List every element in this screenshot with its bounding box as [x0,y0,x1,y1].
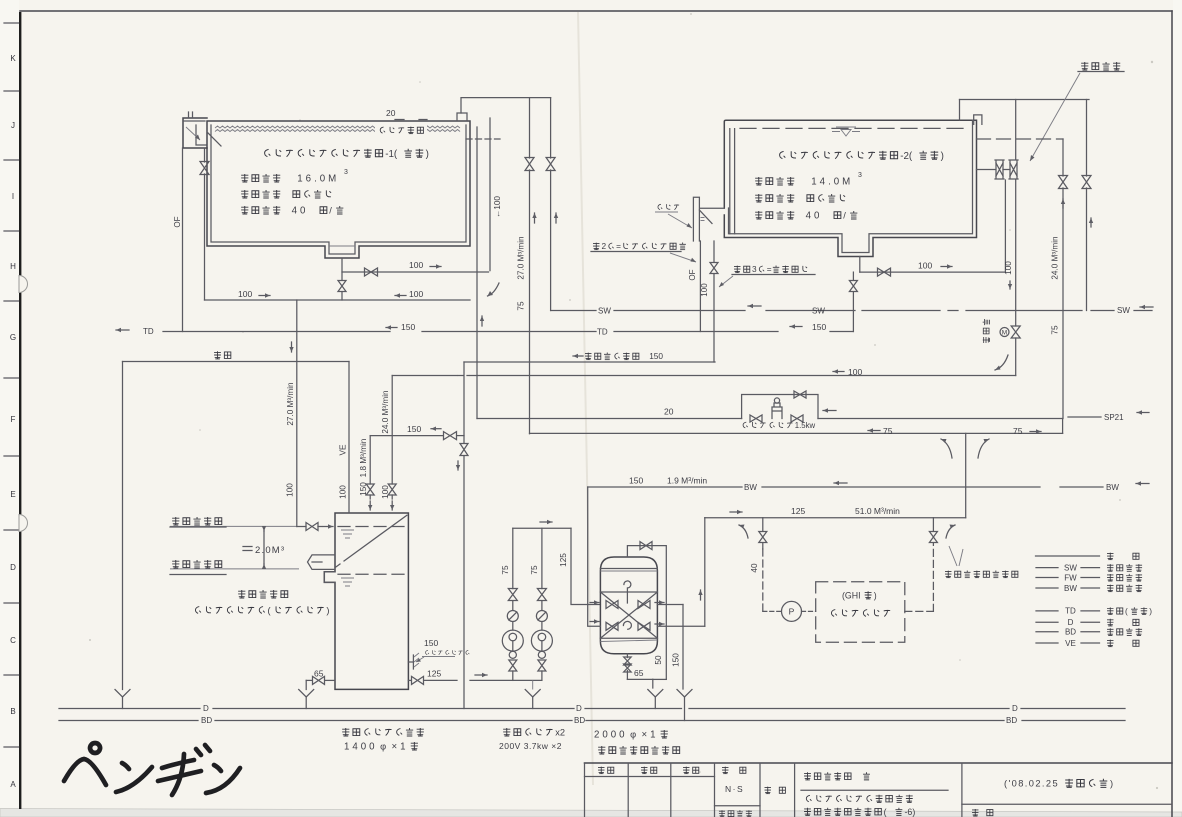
riser filter to 51 line [704,518,706,627]
BW backwash line [588,486,742,488]
svg-text:B: B [10,707,15,716]
svg-text:/: / [843,211,846,221]
svg-text:/: / [329,206,332,216]
svg-text:D: D [203,704,209,713]
ozone carrier drop with valve [762,518,764,531]
svg-text:VE: VE [339,444,348,455]
svg-text:2000: 2000 [594,730,628,741]
filter upper-right stub to 150 drain [657,604,683,606]
flow arrow at BW right [1136,483,1149,485]
riser 24m3 from T2 dashed return [1062,139,1064,176]
flow arrow left at TD left end [116,329,129,331]
balance tank lower water dashes [338,573,405,575]
balance tank drain 65 with valve [325,679,335,681]
curved arrow right of drop [978,439,989,458]
svg-text:): ) [874,590,877,600]
blind flange nozzle on tank right wall [408,655,413,669]
svg-text:M: M [1002,330,1007,337]
svg-text:150: 150 [359,482,368,496]
svg-text:K: K [10,54,16,63]
svg-text:1.5kw: 1.5kw [795,421,816,430]
drop from header into T2 rim [959,100,961,121]
pipe T2 OF drop to TD [699,241,701,332]
tank T1 temperature label [241,190,331,198]
pipe T1 sump vertical with valve [341,258,343,280]
svg-text:P: P [789,607,795,617]
float valve pipe from header [1015,100,1017,160]
curved arrow left of drop [941,439,952,458]
arrow from overflow label [670,253,696,262]
svg-text:14.0M: 14.0M [811,177,853,188]
svg-text:40: 40 [292,206,309,217]
svg-text:150: 150 [424,638,438,648]
title block verticals [584,763,586,817]
filter lower-right outlet arrow [655,623,664,625]
balance tank body [324,513,408,689]
svg-text:C: C [10,636,16,645]
right margin lighter strip [1173,0,1182,817]
svg-text:H: H [10,262,16,271]
label scale [722,767,746,774]
pump P1 suction joint and valve [509,651,516,658]
label drawing number [972,809,993,816]
svg-text:27.0 M³/min: 27.0 M³/min [517,236,526,280]
svg-text:3: 3 [752,264,757,274]
vent line from balance tank [123,361,350,363]
flow arrow left on 150 line [790,326,802,328]
pipe float valve down to motor valve [1015,180,1017,326]
svg-text:VE: VE [1065,639,1076,648]
svg-text:BD: BD [574,716,585,725]
svg-text:TD: TD [1065,607,1076,616]
dashed distribution stub inside T1 [466,138,500,140]
caption balance tank [342,728,424,736]
svg-text:BD: BD [1006,716,1017,725]
flow arrow left on SW [748,305,761,307]
svg-text:-1(: -1( [385,149,398,160]
dashed riser to 51 line with valve [932,543,934,611]
65 drain line to Y1 [627,678,652,680]
legend row BW [1036,587,1058,589]
svg-text:100: 100 [848,367,862,377]
label penguin pool new plan [806,795,912,803]
svg-text:100: 100 [381,485,390,499]
pipe T2 sump drain vertical [859,257,861,273]
pipe wall to float valve [977,169,996,171]
flow arrow left on BW [834,482,847,484]
svg-text:TD: TD [143,327,154,336]
tank T1 volume label [241,174,339,185]
svg-text:D: D [10,563,16,572]
scale cell line [715,805,761,807]
svg-text:3: 3 [344,169,348,176]
tank T2 circulation label [755,211,857,222]
left margin lighter strip [0,0,19,808]
suction Y drain [525,690,540,698]
svg-text:D: D [1068,618,1074,627]
svg-text:2.0M³: 2.0M³ [255,545,285,556]
svg-text:100: 100 [286,483,295,497]
pump P2 riser with valves [541,528,543,588]
BW drop into filter lower-left [588,487,601,626]
discharge riser 125 to filter [571,528,600,604]
svg-text:): ) [941,151,944,162]
label GHI building [842,590,877,600]
svg-text:100: 100 [409,289,423,299]
svg-text:OF: OF [173,216,182,227]
valve on circ drop [460,444,468,456]
svg-text:×1: ×1 [642,730,659,741]
valve on 27m3 riser [525,158,534,171]
svg-text:SP21: SP21 [1104,413,1124,422]
label approval [598,767,614,774]
150 backwash drain drop [682,605,684,690]
svg-text:150: 150 [672,653,681,667]
valve on T1 sump vertical [338,281,346,292]
svg-text:150: 150 [401,322,415,332]
svg-text:SW: SW [598,307,611,316]
svg-text:2: 2 [602,241,607,251]
svg-text:27.0 M³/min: 27.0 M³/min [286,382,295,426]
pipe T1 sump drain horizontal 100 [342,271,489,273]
valve on T1 overflow drop [200,162,209,175]
svg-text:OF: OF [688,269,697,280]
svg-text:150: 150 [407,424,421,434]
svg-text:75: 75 [530,565,539,575]
filter X cross piping [600,592,657,638]
svg-text:×1: ×1 [392,742,409,753]
label Toba aquarium [804,772,870,780]
filter upper panel line [600,591,657,593]
svg-text:100: 100 [238,289,252,299]
flow arrow down on circ drop [457,461,459,470]
svg-text:75: 75 [517,301,526,311]
svg-text:100: 100 [1004,261,1013,275]
riser SW supply right with valve [1086,100,1088,177]
valve on 150 stub [444,432,457,440]
balance tank lower water symbol [341,578,354,586]
flow arrow up on 24m3 riser [1062,199,1064,208]
svg-text:100: 100 [700,283,709,297]
drawing frame right border [1171,11,1173,817]
svg-text:SW: SW [1064,563,1077,572]
svg-text:24.0 M³/min: 24.0 M³/min [381,390,390,434]
svg-text:75: 75 [1051,325,1060,335]
tank T2 name label [780,151,944,162]
svg-text:-6): -6) [905,807,916,817]
balance tank upper water symbol [341,530,354,538]
fold crease shading [578,12,593,785]
svg-text:FW: FW [1064,573,1077,582]
svg-text:(: ( [884,807,887,817]
tank T2 water level dashed line [740,127,965,129]
svg-text:75: 75 [883,426,893,436]
svg-text:BD: BD [1065,628,1076,637]
label back-100 under T1 right [395,295,406,297]
svg-text:): ) [326,606,329,616]
date cell line [962,803,1172,805]
line pump symbol [772,403,782,419]
tank T1 inner wall [211,125,466,254]
line pump bypass loop [742,395,818,419]
svg-text:125: 125 [791,506,805,516]
balance tank drain corner and Y [305,680,307,689]
flow arrow up on 27m3 riser [534,213,536,223]
label run-level underlined [172,560,222,568]
label water treatment diagram [804,807,915,817]
T2 rim stub box [974,115,982,125]
pump P2 suction joint and valve [538,651,545,658]
SW main line [551,310,596,312]
svg-text:75: 75 [1013,426,1023,436]
label motor-valve rotated [983,319,990,343]
dashed return from ozonizer [905,610,934,612]
balance tank outlet 125 to pumps [408,679,411,681]
legend text circulation [1107,553,1139,560]
svg-text:1.9 M³/min: 1.9 M³/min [667,476,707,486]
SP21 long line [477,418,742,420]
caption filter size [594,730,668,741]
title underline 1 [801,789,948,791]
tank T2 temperature label [755,194,845,202]
legend row BD [1036,631,1058,633]
filter lower-left inlet arrow [590,621,599,623]
svg-text:BW: BW [1106,483,1119,492]
pump P2 body [531,630,552,651]
svg-text:D: D [1012,704,1018,713]
D drain main line [59,708,200,710]
filter Y1 drain to D [648,690,663,698]
flow arrow up on return riser [481,316,483,326]
valve on T2 sump drop [849,281,857,292]
svg-text:3: 3 [858,172,862,179]
dimension ticks on tank T1 rim [395,119,404,121]
title block top line [585,762,1173,764]
filter lower vent circle [623,621,631,629]
flow arrow up on right SW riser [1090,218,1092,227]
svg-text:SW: SW [1117,306,1130,315]
svg-text:BW: BW [1064,584,1077,593]
svg-text:F: F [11,415,16,424]
valve on bypass top [794,391,806,398]
tank T1 name label [265,149,429,160]
stop water level line [170,525,297,527]
label sludge outlet [238,590,288,598]
svg-text:(GHI: (GHI [842,590,861,600]
flow arrow down label on float pipe [1009,281,1011,289]
flow arrow up on 51 riser [700,590,702,600]
injector pump P circle [782,601,802,621]
dashed return line T2 to riser [977,138,1064,140]
150 backwash-drain stub line [370,435,443,437]
filter face valves lower row [606,622,618,630]
svg-text:150: 150 [649,351,663,361]
legend line circulation [1036,555,1100,557]
label back-100 on line [833,371,844,373]
balance tank upper water dashes [338,526,405,528]
svg-text:40: 40 [750,563,759,573]
pipe T1 rim riser to SW header [461,98,551,113]
legend row TD [1036,610,1058,612]
pump discharge header [513,527,571,529]
svg-text:('08.02.25: ('08.02.25 [1004,779,1059,789]
valve on SW riser [546,158,555,171]
label water-level-adjust with underline [1081,62,1120,70]
label stop-level underlined [172,517,222,525]
inlet VE pipe into tank top [348,362,350,514]
water level adjust float valve pair [995,160,1004,179]
tank T2 overflow weir diagonal [699,210,712,224]
svg-text:50: 50 [654,655,663,665]
arrow from blind flange label [416,657,424,662]
arrow from circ-return label [719,276,733,287]
vent Y drain to D line [115,690,130,698]
title header underline [585,776,715,778]
valve on 24m3 riser [1059,176,1068,189]
svg-text:BD: BD [201,716,212,725]
pointer lines from existing label [949,546,963,566]
inlet 150 pipe with valve into tank top [369,436,371,484]
flow arrow left on SP21 [823,410,836,412]
svg-text:φ: φ [630,730,636,740]
filter upper-right outlet arrow [655,602,664,604]
T1 rim stub box [457,113,467,121]
curved flow arrow at back-100 bend [995,355,1008,370]
caption balance tank size [344,742,418,753]
svg-text:x2: x2 [555,728,565,738]
arrow from pipe label [668,214,692,228]
tank T1 water surface zigzag band [215,126,460,128]
back-100 line tank2 to balance tank [392,375,457,377]
label overflow-flow-circulation 150 [573,355,583,357]
BD drain main line [59,720,198,722]
vertical joining SP21 and 75 lines at right [1062,419,1064,434]
tank T1 outer wall [207,121,470,258]
tank T2 inner wall right and bottom [729,120,973,252]
filter lower seam [600,637,657,639]
dashed pipe to pump P [762,549,764,611]
inlet from 27m3 drop into tank left [297,526,306,528]
label check [641,767,657,774]
svg-text:=: = [616,241,621,251]
valve on T1 sump horizontal [365,268,378,276]
header line above T2 [960,99,1090,101]
label third angle [719,810,752,817]
svg-text:75: 75 [501,565,510,575]
drop from 75 line to 51 line [965,433,967,517]
svg-text:125: 125 [559,553,568,567]
curved flow arrow at riser base [488,283,500,296]
valve on T2 return riser [710,263,718,274]
legend row SW [1036,567,1058,569]
label vent [214,351,231,359]
svg-text:N·S: N·S [725,784,744,794]
svg-text:BW: BW [744,483,757,492]
pipe T2 sump drop to 150 line with valve [852,272,854,280]
curved arrow at ozone return [946,525,955,538]
svg-text:D: D [576,704,582,713]
svg-text:100: 100 [918,261,932,271]
svg-text:E: E [10,490,15,499]
arrow into T1 overflow box [186,127,200,140]
svg-text:20: 20 [664,407,674,417]
caption circulation pumps [503,728,565,738]
filter vessel shell [600,557,657,654]
svg-text:16.0M: 16.0M [297,174,339,185]
svg-text:←100: ←100 [493,196,502,218]
legend row D [1036,621,1058,623]
balance tank diagonal screen [344,515,407,561]
valve on 150 inlet [366,484,374,495]
filter top relief line with valve [627,546,666,680]
valve on 100 inlet [388,484,396,495]
drawing frame top border [20,10,1172,12]
svg-text:40: 40 [806,211,823,222]
pipe drop to balance tank 27m3 [296,300,298,527]
svg-text:φ: φ [380,742,386,752]
leader arrow from water-level-adjust label [1030,73,1080,161]
filter face valves upper row [606,601,618,609]
label drafting [683,767,699,774]
svg-text:): ) [1149,606,1152,616]
pump P1 riser with valves [512,528,514,588]
label pipe handwritten [658,204,679,210]
valve on right SW riser [1082,176,1091,189]
svg-text:125: 125 [427,669,441,679]
label ozonizer [831,609,890,616]
pump P1 body [502,630,523,651]
tank T1 overflow box at left [183,118,207,148]
svg-text:150: 150 [629,476,643,486]
tank T2 standpipe inside left wall [730,129,735,234]
flow arrow left at SW right end [1140,306,1153,308]
svg-text:J: J [11,121,15,130]
label back-150 under T1 [386,327,397,329]
svg-text:A: A [10,780,16,789]
left margin heavy edge bar [19,12,21,809]
binder punch hole lower [19,515,28,532]
flow arrow down on 27m3 drop [291,342,293,352]
svg-text:20: 20 [386,108,396,118]
51 m3 line [705,517,966,519]
svg-text:SW: SW [812,307,825,316]
tank T2 volume label [755,177,853,188]
pipe T2 sump horizontal 100 to right [860,271,1006,273]
label back-75 [868,430,880,432]
label name header [765,787,786,794]
left margin row letters [10,54,16,789]
vent drop pipe at far left [122,362,124,690]
motor valve with M circle [1011,326,1020,338]
caption filter name [598,746,680,754]
svg-text:): ) [1110,779,1113,789]
ozonizer dashed enclosure [816,582,905,643]
level span double arrow [263,530,265,532]
balance tank step box [324,572,335,583]
svg-text:1.8 M³/min: 1.8 M³/min [359,438,368,477]
label existing aquarium equipment [945,570,1018,577]
SP21 label stub at right [1068,416,1101,418]
pipe T1 return riser pair [476,127,478,419]
pipe T1 overflow box to 100-line [204,148,206,162]
filter lower-right stub to 51 riser [657,625,704,627]
legend row FW [1036,577,1058,579]
filter top vent circle [624,581,631,588]
label front-3-circ-return [734,264,807,274]
binder punch hole upper [19,276,28,293]
pipe motor valve down to back-100 line [1015,338,1017,376]
pipe T1 OF drop to TD line [182,148,184,332]
